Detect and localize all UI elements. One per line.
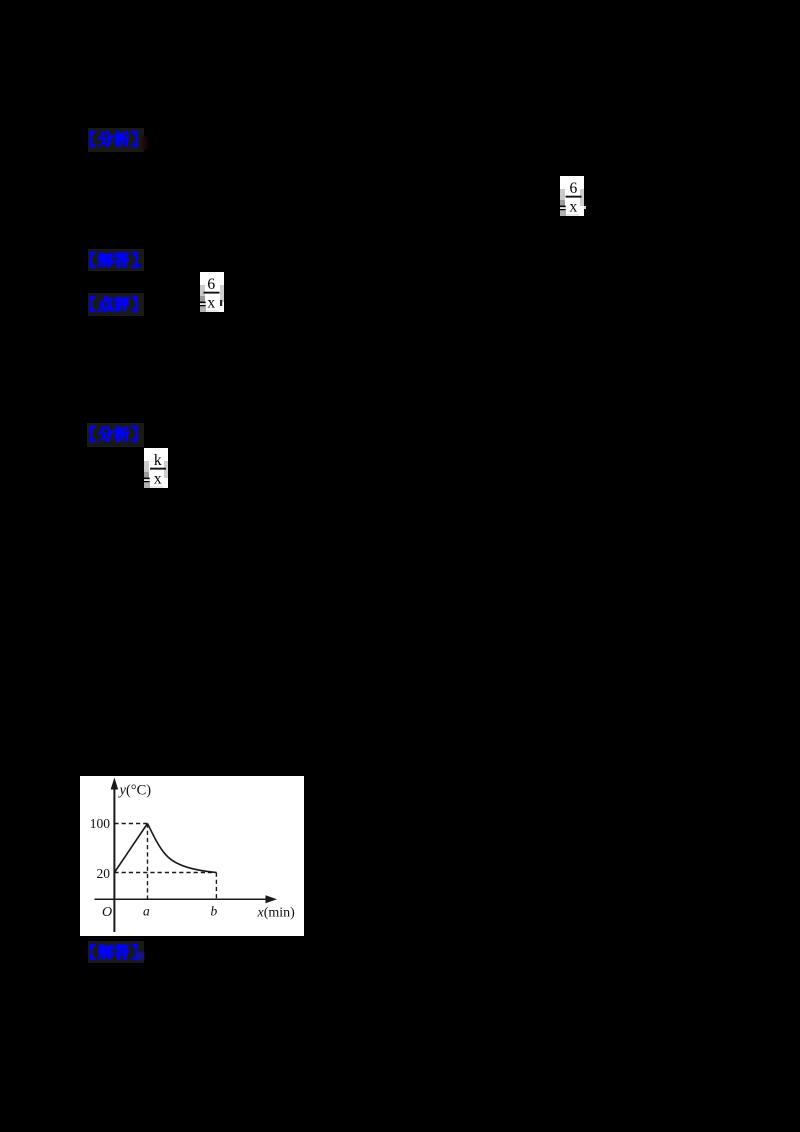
svg-text:a: a <box>143 903 150 918</box>
dashed guide 100 level <box>114 822 147 824</box>
formula image y=6/x (second) <box>200 272 224 312</box>
y-axis <box>113 788 115 932</box>
formula image y=6/x (first) <box>560 176 584 216</box>
label 3: blue [dianping] <box>90 294 142 316</box>
rising segment <box>114 823 147 872</box>
svg-text:100: 100 <box>90 816 111 831</box>
label 1: blue [fenxi] <box>90 129 142 151</box>
formula image y=k/x <box>144 448 168 488</box>
svg-text:6: 6 <box>207 276 215 293</box>
blue period after label 2 <box>137 264 141 269</box>
decay curve <box>148 823 217 872</box>
svg-text:b: b <box>211 903 218 918</box>
svg-text:x(min): x(min) <box>257 905 296 920</box>
dashed vertical at b <box>215 872 217 899</box>
svg-text:x: x <box>154 471 162 488</box>
highlight box behind label 1 <box>88 128 144 152</box>
highlight box behind label 3 <box>88 293 144 316</box>
faint artifact right of label 1 <box>142 136 147 150</box>
highlight box behind label 5 <box>88 941 144 963</box>
highlight box behind label 2 <box>88 249 144 271</box>
svg-text:y(°C): y(°C) <box>118 782 152 798</box>
label 4: blue [fenxi] <box>90 424 142 446</box>
label 5: blue [jieda] <box>90 942 142 964</box>
label 2: blue [jieda] <box>90 250 142 272</box>
svg-text:x: x <box>207 295 215 312</box>
svg-text:x: x <box>570 199 578 216</box>
svg-text:20: 20 <box>97 866 111 881</box>
svg-text:6: 6 <box>570 180 578 197</box>
blue smudge after label 5 <box>136 952 144 960</box>
dashed guide 20 level <box>114 871 216 873</box>
chart figure: temperature y(C) vs time x(min) <box>80 776 304 936</box>
dashed vertical at a <box>147 823 149 899</box>
svg-text:k: k <box>154 452 162 469</box>
highlight box behind label 4 <box>87 423 144 447</box>
x-axis <box>95 898 269 900</box>
svg-text:O: O <box>102 905 112 920</box>
